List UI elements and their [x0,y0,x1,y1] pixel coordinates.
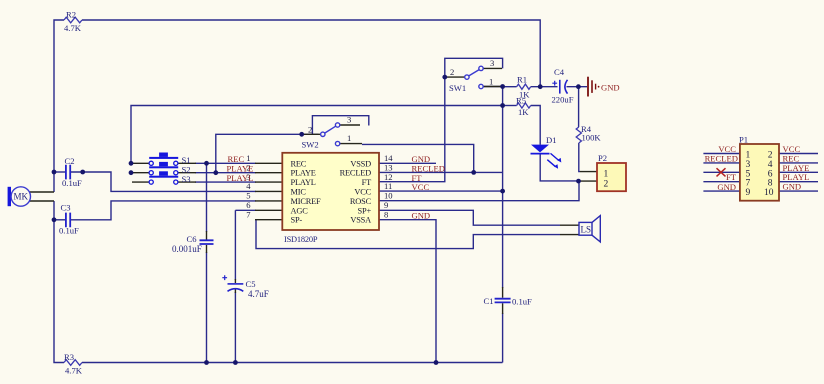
wire C2 output to chip MIC pin4 [71,172,256,191]
wire SW2 common to PLAYE [216,134,319,172]
pushbutton S1 [149,153,178,166]
svg-text:2: 2 [604,180,609,190]
wire PLAYE net row (S2 to chip pin2) [195,172,256,174]
svg-text:2: 2 [308,125,312,135]
svg-text:GND: GND [717,182,736,192]
wire S3 leads [132,181,196,183]
svg-text:3: 3 [490,58,494,68]
svg-text:D1: D1 [546,135,557,145]
svg-text:MIC: MIC [291,187,307,196]
wire P2 pin leads [579,172,598,182]
wire R1 right lead to C4 [531,86,558,88]
wire D1 cathode to P2 pin2 junction [540,154,578,181]
svg-text:VCC: VCC [412,182,430,192]
svg-text:10: 10 [764,188,774,198]
svg-text:GND: GND [783,182,802,192]
pushbutton S2 [149,162,178,175]
capacitor C5 4.7uF polarized [222,275,243,291]
resistor R5 1K [517,103,531,108]
node PLAYE / SW2 junction [213,170,218,175]
wire chip pin6 AGC to C5 column [235,210,256,362]
svg-text:7: 7 [246,209,251,219]
svg-text:100K: 100K [582,133,602,143]
wire VCC column (R1 junction down to bottom rail) [502,87,504,363]
wire R5 right lead to D1 anode [531,106,541,145]
wire P1 right pin leads [779,154,818,192]
svg-text:RECLED: RECLED [705,153,738,163]
svg-text:C1: C1 [484,296,494,306]
svg-text:R5: R5 [516,96,526,106]
capacitor C1 0.1uF [495,299,511,303]
resistor R3 4.7K [64,360,82,366]
wire SW2 pin3 lead [340,124,360,126]
capacitor C3 0.1uF [66,213,70,228]
svg-text:2: 2 [450,67,454,77]
wire REC to C6 to ground rail [206,163,208,362]
switch SW2 [321,123,340,146]
LED D1 [531,145,562,169]
wire SW1 bracket pin3 tie [445,58,503,77]
svg-text:0.1uF: 0.1uF [59,226,79,236]
wire SW1 pin1 to VCC column junction [484,86,503,88]
capacitor C4 220uF polarized [552,80,567,94]
svg-text:VSSA: VSSA [350,216,371,225]
svg-text:8: 8 [384,209,388,219]
capacitor C6 0.001uF [200,240,214,244]
svg-text:VSSD: VSSD [350,159,371,168]
svg-text:S1: S1 [182,155,191,165]
svg-text:S3: S3 [182,174,191,184]
node C2 output corner junction [80,170,85,175]
svg-text:MICREF: MICREF [291,197,322,206]
wire FT row to SW1 common [379,77,445,182]
svg-text:RECLED: RECLED [340,169,372,178]
wire REC net row (S1 to chip pin1) [195,162,256,164]
wire C3 output to chip MICREF pin5 [71,201,256,220]
wire R4 top lead from C4/GND row [578,87,580,127]
node left rail C3 tap [52,217,57,222]
resistor R2 4.7K [64,17,82,23]
svg-text:S2: S2 [182,165,191,175]
resistor R1 1K [517,84,531,89]
wire buttons rail to R5 row [131,106,503,164]
svg-text:GND: GND [412,211,431,221]
wire chip pin10 ROSC row to P2 pin2 junction [379,181,579,201]
node SW1 pin1 / R1 / VCC column [500,84,505,89]
svg-text:REC: REC [291,159,307,168]
wire C6 pin stubs [206,231,208,253]
svg-text:PLAYL: PLAYL [227,173,254,183]
node R5 / buttons-rail / VCC column [500,103,505,108]
wire SW1 pin1 lead [483,86,502,88]
svg-text:4.7uF: 4.7uF [248,289,269,299]
svg-text:SW2: SW2 [302,140,319,150]
wire P1 left pin leads [703,154,740,192]
op-amp U1 ISD1820P chip body [282,153,379,230]
wire C2 left lead [54,171,65,173]
svg-text:ISD1820P: ISD1820P [284,235,318,244]
svg-text:C3: C3 [61,203,71,213]
wire chip pin9 SP+ to speaker [379,210,560,225]
node REC / C6 junction [204,161,209,166]
wire R4 bottom lead to P2 pin1 [579,143,580,172]
node buttons rail S2 [129,170,134,175]
wire chip left pin stubs [255,163,282,219]
wire R5 left lead [503,105,517,107]
svg-text:R1: R1 [517,75,527,85]
connector P2 body [597,163,626,191]
wire microphone leads [29,192,54,201]
node RECLED / SW2 pin1 junction [471,170,476,175]
svg-text:0.001uF: 0.001uF [172,244,202,254]
svg-text:4.7K: 4.7K [65,366,83,376]
svg-text:4.7K: 4.7K [64,23,82,33]
resistor R4 100K [576,127,581,143]
microphone MK [8,187,31,206]
svg-text:1: 1 [604,170,609,180]
svg-text:11: 11 [384,181,392,191]
svg-text:VCC: VCC [354,187,371,196]
wire SW1 pin2 lead [447,76,465,78]
svg-text:C4: C4 [554,67,565,77]
svg-text:C6: C6 [187,234,198,244]
node left rail C2 tap [52,170,57,175]
capacitor C2 0.1uF [66,165,70,180]
svg-text:220uF: 220uF [552,95,574,105]
no-ERC cross on P1 pin5 [717,168,726,176]
node VCC row pin11 junction [500,189,505,194]
wire left bias rail lower (mic bottom lead to R3) [54,201,64,363]
svg-text:3: 3 [347,115,351,125]
node ground rail pin8 column [434,360,439,365]
svg-text:9: 9 [746,188,751,198]
svg-text:FT: FT [726,172,737,182]
svg-text:0.1uF: 0.1uF [62,178,82,188]
wire chip pin8 GND column [379,220,436,363]
svg-text:1K: 1K [518,107,529,117]
svg-text:C5: C5 [246,279,256,289]
svg-text:1: 1 [489,77,493,87]
node buttons rail S1 [129,161,134,166]
node SW2 common junction [299,132,304,137]
wire C3 left lead [54,219,65,221]
ground symbol GND (bar style) [588,77,599,97]
svg-text:PLAYE: PLAYE [291,169,316,178]
node SW1 common junction [442,75,447,80]
svg-text:FT: FT [362,178,371,187]
svg-text:P1: P1 [739,135,748,145]
svg-text:SP-: SP- [291,216,303,225]
wire C5 pin stubs [234,279,236,293]
svg-text:R2: R2 [66,10,76,20]
wire SW1 pin3 lead [483,67,502,69]
wire chip pin14 GND stub [379,162,436,164]
svg-text:MK: MK [14,192,29,202]
wire SW2 pin2 lead [304,133,321,135]
wire S1 leads [132,162,196,164]
pushbutton S3 [149,171,178,184]
svg-text:0.1uF: 0.1uF [512,297,532,307]
wire S2 leads [132,172,196,174]
switch SW1 [465,66,484,89]
svg-text:1: 1 [347,133,351,143]
svg-text:SP+: SP+ [358,206,372,215]
wire R1 left lead [503,86,517,88]
svg-text:LS: LS [581,225,592,235]
speaker LS [579,216,600,242]
wire chip pin7 SP- to speaker [256,220,560,249]
node P2 pin2 / D1 / ROSC junction [576,179,581,184]
node ground rail C5 [233,360,238,365]
node ground rail C6 [204,360,209,365]
svg-text:P2: P2 [598,153,607,163]
wire PLAYL net row (S3 to chip pin3) [195,181,256,183]
svg-text:GND: GND [601,83,620,93]
wire SW2 pin1 to RECLED vertical [362,144,474,172]
wire SW2 pin1 lead [340,143,362,145]
node top rail / R1 row junction [538,84,543,89]
svg-text:R3: R3 [64,352,74,362]
svg-text:SW1: SW1 [449,83,466,93]
wire left bias rail upper (R2 to mic top lead) [54,20,64,192]
wire SW2 bracket pin3 tie [312,116,368,134]
wire C1 pin stubs [502,287,504,314]
svg-text:PLAYL: PLAYL [291,178,316,187]
wire RECLED row (chip pin13) [379,171,503,173]
node C4 / R4 / GND junction [576,84,581,89]
svg-text:C2: C2 [65,156,75,166]
wire C4 right lead to GND stub [567,86,588,88]
wire chip pin11 VCC row [379,190,503,192]
connector P1 body [740,144,779,201]
svg-text:AGC: AGC [291,206,309,215]
svg-text:ROSC: ROSC [350,197,372,206]
wire top VCC rail from R2 to C4 column [82,20,540,87]
wire speaker leads [560,225,579,234]
wire bottom ground rail [82,362,503,364]
